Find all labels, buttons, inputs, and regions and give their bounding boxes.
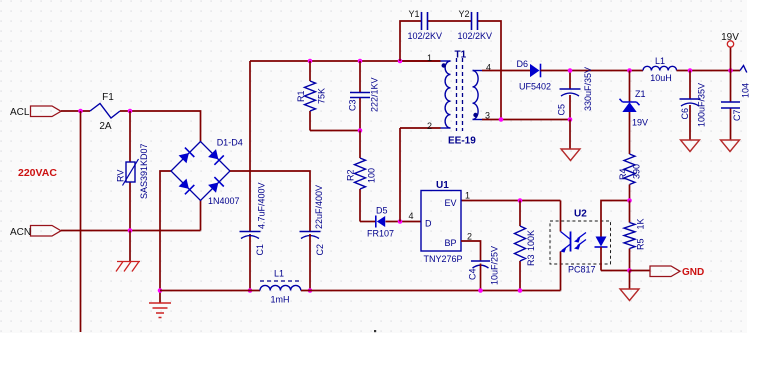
svg-text:4: 4 bbox=[409, 211, 414, 221]
wire Z1 stem bbox=[629, 71, 631, 103]
svg-text:SAS391KD07: SAS391KD07 bbox=[139, 143, 149, 199]
wire Y cap rail bbox=[400, 21, 501, 120]
node C5 top junction bbox=[568, 68, 573, 73]
svg-text:RV: RV bbox=[116, 170, 126, 182]
resistor R4 bbox=[624, 154, 635, 185]
node ACL junction bbox=[78, 109, 83, 114]
node C4 bottom junction bbox=[478, 288, 483, 293]
svg-text:19V: 19V bbox=[721, 32, 739, 43]
port GND bbox=[650, 266, 680, 277]
svg-text:102/2KV: 102/2KV bbox=[458, 31, 493, 41]
stray dot bbox=[374, 330, 376, 332]
diode D5 bbox=[377, 216, 385, 227]
wire EV net bbox=[461, 200, 561, 202]
power port 19V bbox=[730, 48, 732, 71]
svg-text:UF5402: UF5402 bbox=[519, 82, 551, 92]
capacitor C4 bbox=[471, 260, 490, 262]
node C6 junction bbox=[688, 68, 693, 73]
svg-text:2: 2 bbox=[467, 232, 472, 242]
wire R1 bottom bbox=[310, 130, 360, 132]
svg-text:D1-D4: D1-D4 bbox=[217, 138, 243, 148]
svg-text:C6: C6 bbox=[680, 108, 690, 120]
resistor R2 bbox=[359, 131, 361, 222]
transformer T1 primary winding bbox=[441, 60, 451, 62]
svg-text:GND: GND bbox=[682, 267, 704, 278]
fuse F1 bbox=[90, 104, 120, 119]
node F1 junction bbox=[128, 109, 133, 114]
wire R4 to junction bbox=[629, 185, 631, 201]
wire bottom rail left bbox=[160, 290, 260, 292]
wire BP net bbox=[461, 241, 481, 261]
svg-text:1K: 1K bbox=[636, 218, 646, 229]
svg-text:D6: D6 bbox=[517, 59, 529, 69]
wire C1 column bbox=[249, 61, 251, 291]
svg-text:220VAC: 220VAC bbox=[18, 167, 57, 179]
wire pin1 bbox=[400, 60, 441, 62]
svg-text:222/1KV: 222/1KV bbox=[370, 77, 380, 112]
svg-text:19V: 19V bbox=[632, 118, 648, 128]
resistor R5 bbox=[629, 201, 631, 271]
capacitor C6 bbox=[689, 71, 691, 141]
node C3 bottom junction bbox=[358, 128, 363, 133]
svg-text:330uF/35V: 330uF/35V bbox=[583, 67, 593, 111]
svg-text:D5: D5 bbox=[376, 206, 388, 216]
wire D5 to U1 bbox=[386, 221, 422, 223]
node R1 top junction bbox=[308, 59, 313, 64]
node R3 top junction bbox=[518, 198, 523, 203]
wire EV to opto bbox=[560, 201, 562, 232]
node C5 bottom junction bbox=[568, 117, 573, 122]
opto light arrows bbox=[578, 233, 587, 246]
svg-text:TNY276P: TNY276P bbox=[424, 254, 463, 264]
capacitor C7 bbox=[730, 71, 732, 141]
svg-text:R1: R1 bbox=[296, 90, 306, 102]
svg-text:100uF/35V: 100uF/35V bbox=[697, 83, 707, 127]
wire Z1 to R4 bbox=[629, 112, 631, 154]
wire bridge bottom stem bbox=[200, 201, 202, 231]
wire R2 to D5 bbox=[360, 221, 376, 223]
svg-text:EV: EV bbox=[445, 198, 457, 208]
svg-text:F1: F1 bbox=[102, 92, 114, 103]
svg-text:R4: R4 bbox=[618, 168, 628, 180]
port ACL bbox=[31, 106, 62, 117]
svg-text:PC817: PC817 bbox=[568, 265, 596, 275]
transformer T1 secondary winding bbox=[473, 70, 483, 72]
wire F1 to bridge top bbox=[120, 111, 201, 142]
node R3 bottom junction bbox=[518, 288, 523, 293]
svg-text:1: 1 bbox=[465, 191, 470, 201]
svg-text:22uF/400V: 22uF/400V bbox=[314, 185, 324, 229]
wire C2 bottom bbox=[309, 234, 311, 291]
wire pin4 to D6 bbox=[482, 70, 530, 72]
optocoupler U2 box bbox=[550, 221, 611, 264]
port ACN bbox=[31, 226, 62, 237]
diode D2 (top-right) bbox=[208, 149, 218, 159]
wire opto emitter down bbox=[560, 252, 562, 291]
svg-text:C1: C1 bbox=[255, 244, 265, 256]
node pin3 Y2 junction bbox=[499, 117, 504, 122]
svg-text:C3: C3 bbox=[348, 99, 358, 111]
wire bridge left bbox=[160, 171, 171, 291]
wire D6 to L1 bbox=[541, 70, 644, 72]
svg-text:104: 104 bbox=[741, 83, 751, 98]
wire ACN bbox=[61, 230, 201, 232]
diode D1 (top-left) bbox=[179, 153, 189, 163]
svg-text:102/2KV: 102/2KV bbox=[408, 31, 443, 41]
svg-text:U1: U1 bbox=[436, 180, 449, 191]
bridge frame D1-D4 bbox=[171, 142, 230, 201]
svg-text:R3: R3 bbox=[526, 254, 536, 266]
node Y1 branch junction bbox=[398, 59, 403, 64]
wire opto diode to gnd rail bbox=[601, 247, 630, 271]
svg-text:L1: L1 bbox=[274, 269, 284, 279]
varistor RV bbox=[126, 162, 135, 182]
node GND junction bbox=[627, 268, 632, 273]
ground (bridge minus) bbox=[159, 291, 161, 304]
svg-text:EE-19: EE-19 bbox=[448, 136, 476, 147]
capacitor Y2 bbox=[472, 12, 478, 30]
ground (C7) bbox=[721, 140, 740, 152]
wire ACL column down bbox=[80, 111, 82, 332]
diode D6 bbox=[530, 64, 540, 77]
wire pin2 riser bbox=[400, 128, 441, 222]
svg-text:R2: R2 bbox=[346, 169, 356, 181]
svg-text:C7: C7 bbox=[732, 109, 742, 121]
svg-text:C2: C2 bbox=[315, 244, 325, 256]
svg-text:2A: 2A bbox=[99, 121, 112, 132]
svg-text:10uF/25V: 10uF/25V bbox=[490, 246, 500, 285]
svg-text:T1: T1 bbox=[455, 50, 467, 61]
resistor (clipped at edge) bbox=[740, 66, 747, 73]
svg-text:390: 390 bbox=[632, 164, 642, 179]
capacitor Y1 bbox=[422, 12, 428, 30]
zener Z1 bbox=[622, 102, 636, 112]
svg-text:ACL: ACL bbox=[10, 107, 30, 118]
resistor R1 bbox=[309, 61, 311, 131]
ground (GND net) bbox=[629, 271, 631, 290]
svg-text:C5: C5 bbox=[557, 104, 567, 116]
svg-text:BP: BP bbox=[445, 238, 457, 248]
svg-text:Y2: Y2 bbox=[459, 9, 470, 19]
op-amp U1 box bbox=[421, 191, 461, 252]
node C3 top junction bbox=[358, 59, 363, 64]
svg-text:1: 1 bbox=[427, 53, 432, 63]
node C1 bottom junction bbox=[248, 288, 253, 293]
svg-text:R5: R5 bbox=[636, 238, 646, 250]
wire ACL to fuse bbox=[61, 110, 90, 112]
wire chassis stem bbox=[129, 231, 131, 262]
node output junction bbox=[728, 68, 733, 73]
wire L1 to output bbox=[677, 70, 741, 72]
node C2 bottom junction bbox=[308, 288, 313, 293]
diode D3 (bottom-left) bbox=[179, 179, 189, 189]
svg-text:ACN: ACN bbox=[10, 227, 31, 238]
node D5 junction bbox=[398, 219, 403, 224]
svg-text:1mH: 1mH bbox=[270, 295, 289, 305]
svg-text:2: 2 bbox=[427, 121, 432, 131]
opto phototransistor bbox=[570, 232, 572, 252]
diode D4 (bottom-right) bbox=[208, 183, 218, 193]
svg-text:75K: 75K bbox=[317, 88, 327, 104]
transformer T1 core bbox=[457, 58, 463, 131]
ground (C5) bbox=[569, 120, 571, 150]
svg-text:Z1: Z1 bbox=[635, 89, 646, 99]
svg-text:C4: C4 bbox=[468, 268, 478, 280]
svg-text:4.7uF/400V: 4.7uF/400V bbox=[257, 182, 267, 229]
node bridge minus junction bbox=[158, 288, 163, 293]
node Z1 junction bbox=[627, 68, 632, 73]
ground (C6) bbox=[681, 140, 700, 152]
resistor R3 bbox=[519, 201, 521, 291]
capacitor C2 bbox=[300, 231, 321, 233]
wire bridge plus rail bbox=[230, 171, 310, 232]
capacitor C1 bbox=[240, 231, 261, 233]
svg-text:Y1: Y1 bbox=[409, 9, 420, 19]
wire bottom rail right bbox=[301, 290, 561, 292]
svg-text:10uH: 10uH bbox=[650, 73, 672, 83]
inductor L1 (10uH) bbox=[643, 66, 677, 70]
capacitor C5 bbox=[569, 71, 571, 120]
wire opto diode branch bbox=[601, 201, 630, 237]
wire RV column bbox=[129, 111, 131, 231]
node R4 R5 junction bbox=[627, 198, 632, 203]
capacitor C3 bbox=[359, 61, 361, 131]
svg-text:D: D bbox=[425, 219, 432, 229]
wire snubber rail bbox=[250, 60, 441, 62]
node ACN junction bbox=[128, 228, 133, 233]
opto output diode bbox=[596, 237, 607, 247]
svg-text:U2: U2 bbox=[574, 209, 587, 220]
svg-text:FR107: FR107 bbox=[367, 229, 394, 239]
svg-text:100: 100 bbox=[367, 168, 377, 183]
svg-text:1N4007: 1N4007 bbox=[208, 196, 240, 206]
svg-text:100K: 100K bbox=[526, 230, 536, 251]
chassis ground bbox=[116, 262, 140, 272]
inductor L1 (1mH choke) bbox=[260, 285, 301, 290]
svg-text:L1: L1 bbox=[655, 56, 665, 66]
wire pin3 rail bbox=[482, 119, 570, 121]
wire GND port bbox=[630, 270, 651, 272]
